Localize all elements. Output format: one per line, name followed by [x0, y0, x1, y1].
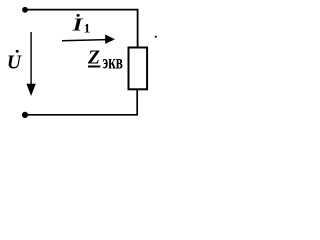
node terminal top-left — [22, 7, 28, 13]
impedance box Z экв — [129, 48, 148, 90]
stray period mark — [155, 36, 157, 38]
wire right vertical upper — [137, 9, 139, 48]
node terminal bottom-left — [22, 112, 28, 118]
wire right vertical lower — [136, 90, 138, 115]
wire bottom horizontal — [25, 114, 138, 116]
voltage arrow U (down) — [30, 32, 32, 85]
svg-text:1: 1 — [84, 21, 91, 36]
wire top horizontal — [25, 9, 138, 11]
current arrow I1 (right) — [62, 40, 106, 41]
svg-text:U: U — [7, 52, 22, 73]
svg-text:экв: экв — [103, 51, 123, 73]
svg-text:I: I — [71, 14, 84, 35]
